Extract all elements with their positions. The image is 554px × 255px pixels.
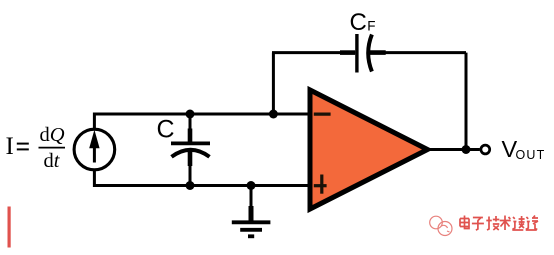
svg-text:C: C (157, 116, 175, 144)
node: ground junction (247, 181, 256, 190)
svg-text:C: C (350, 9, 367, 36)
label VOUT (502, 136, 546, 162)
watermark red bar (8, 207, 11, 248)
current source I (74, 129, 115, 170)
output terminal (open circle) (481, 145, 490, 154)
svg-text:dQ: dQ (40, 124, 65, 146)
char 递 (526, 216, 538, 231)
capacitor C plates (171, 143, 210, 156)
svg-text:F: F (367, 19, 375, 34)
wire bottom rail (current source to non-inverting input) (94, 170, 310, 186)
char 技 (486, 216, 499, 230)
wire feedback left vertical (272, 53, 275, 114)
char 子 (472, 218, 484, 231)
ground (232, 186, 271, 237)
svg-text:OUT: OUT (516, 148, 546, 162)
node: cap C top junction (186, 110, 195, 119)
wire top rail (current source to inverting input) (94, 114, 310, 130)
wire feedback top left (272, 51, 355, 54)
svg-text:I: I (6, 133, 14, 160)
node: feedback branch junction (269, 110, 278, 119)
svg-text:dt: dt (44, 150, 61, 172)
wire feedback top right (370, 51, 467, 54)
watermark text 电子技术速递 (drawn strokes) (460, 216, 538, 231)
op-amp U1 (310, 90, 428, 209)
char 速 (512, 216, 524, 230)
wire output (427, 148, 480, 151)
capacitor CF plates (357, 34, 372, 73)
wire feedback right vertical (465, 53, 468, 150)
node: output junction (462, 145, 471, 154)
label CF (350, 9, 376, 36)
label I = dQ/dt (6, 124, 66, 172)
node: cap C bottom junction (186, 181, 195, 190)
char 术 (500, 216, 511, 231)
capacitor C branch: top lead (189, 114, 192, 142)
char 电 (460, 216, 469, 229)
capacitor C bottom lead (188, 151, 193, 186)
watermark logo (430, 216, 452, 235)
